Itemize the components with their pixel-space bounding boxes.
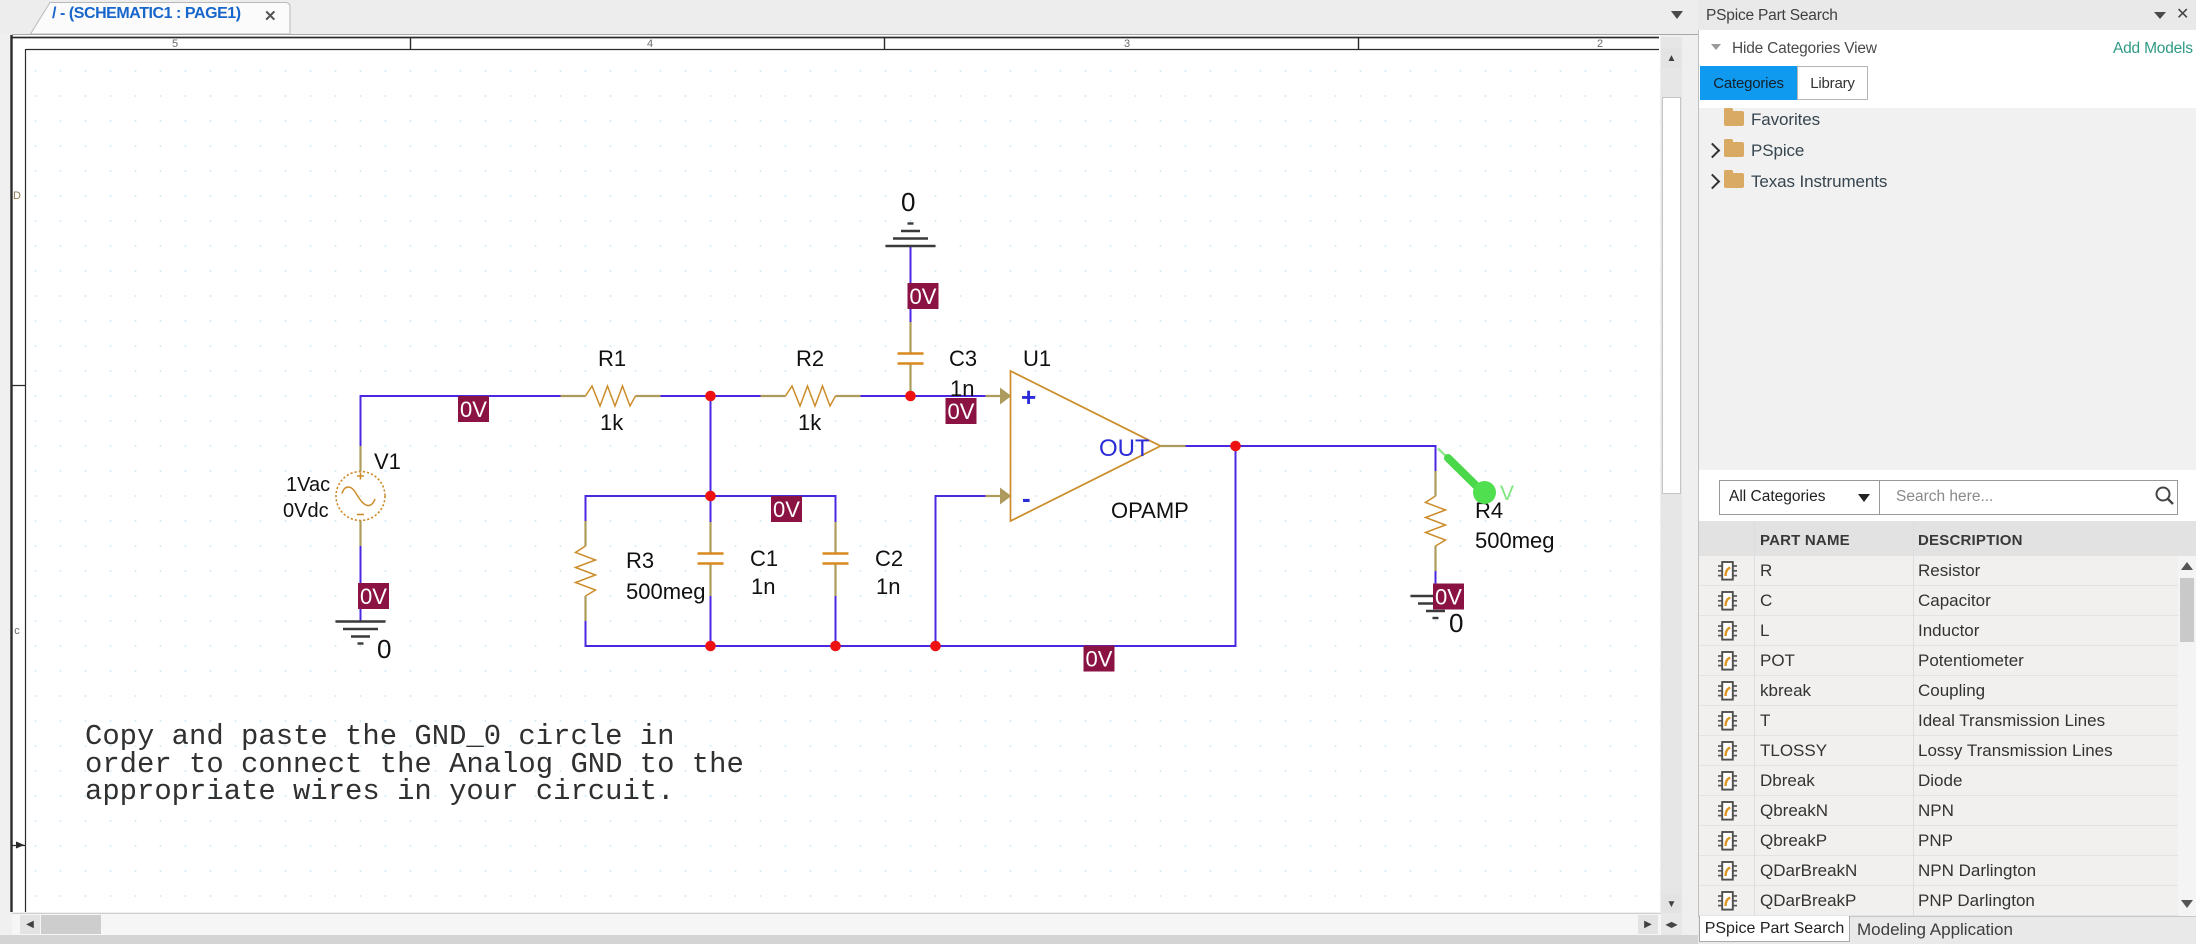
svg-text:OUT: OUT: [1099, 435, 1150, 462]
pin + (U1): [1021, 382, 1036, 412]
pin - (U1): [1022, 483, 1031, 513]
wire C1 bottom stub: [710, 595, 712, 646]
svg-text:500meg: 500meg: [626, 579, 706, 604]
value 1k (R2): [798, 410, 822, 435]
sheet frame (decorative): [11, 35, 1659, 912]
resistor R3: [576, 521, 596, 621]
resistor R4: [1426, 471, 1446, 571]
svg-text:C3: C3: [949, 346, 977, 371]
svg-text:0Vdc: 0Vdc: [283, 500, 329, 522]
voltage source V1: [336, 446, 385, 546]
svg-text:V: V: [1500, 482, 1514, 505]
label OPAMP: [1111, 498, 1189, 523]
label R1: [598, 346, 626, 371]
svg-text:C2: C2: [875, 546, 903, 571]
svg-text:500meg: 500meg: [1475, 528, 1555, 553]
value 500meg (R4): [1475, 528, 1555, 553]
voltage probe V: [1438, 449, 1514, 506]
junction node bottom inverting: [930, 641, 941, 652]
resistor R2: [761, 386, 861, 406]
net label 0V (V1 ground wire): [358, 583, 389, 609]
wire C2 bottom stub: [835, 595, 837, 646]
svg-text:1n: 1n: [751, 574, 775, 599]
svg-text:1k: 1k: [798, 410, 822, 435]
note text: [85, 723, 744, 806]
wire bottom rail: [586, 446, 1236, 646]
net label 0V (input wire): [458, 396, 489, 422]
svg-text:R2: R2: [796, 346, 824, 371]
label 0 (top ground): [901, 187, 915, 217]
junction node bottom C2: [830, 641, 841, 652]
wire R1 to R2: [660, 395, 762, 397]
svg-text:0V: 0V: [460, 397, 487, 422]
junction node C3/U1+: [905, 391, 916, 402]
wire feedback top rail R3 C1 C2: [586, 496, 836, 522]
wire ground 0 to C3: [910, 247, 912, 322]
page tab: [30, 2, 292, 34]
junction node feedback top: [705, 491, 716, 502]
junction node OUT: [1230, 441, 1241, 452]
label R2: [796, 346, 824, 371]
label C3: [949, 346, 977, 371]
svg-text:1n: 1n: [950, 376, 974, 401]
net label 0V (C3 top wire): [908, 283, 939, 309]
svg-text:4: 4: [647, 38, 653, 50]
label C2: [875, 546, 903, 571]
svg-text:R3: R3: [626, 548, 654, 573]
wire U1 output to R4: [1185, 446, 1436, 472]
junction node R1/R2: [705, 391, 716, 402]
net label 0V (feedback rail): [771, 496, 802, 522]
label R3: [626, 548, 654, 573]
svg-text:c: c: [14, 625, 20, 637]
label C1: [750, 546, 778, 571]
wire V1 bottom to ground: [360, 545, 362, 621]
wire from V1 to R1: [361, 396, 562, 447]
svg-text:0V: 0V: [360, 584, 387, 609]
svg-text:OPAMP: OPAMP: [1111, 498, 1189, 523]
label 0 (R4 ground): [1449, 608, 1463, 638]
value 1n (C3): [950, 376, 974, 401]
svg-text:0: 0: [1449, 608, 1463, 638]
net label 0V (R4 ground wire): [1433, 584, 1464, 610]
svg-text:2: 2: [1597, 38, 1603, 50]
scrollbars: [1661, 37, 1682, 915]
net label 0V (U1 + input): [946, 398, 977, 424]
wire R2 to U1 + input: [860, 395, 987, 397]
svg-text:5: 5: [172, 38, 178, 50]
capacitor C2: [823, 522, 849, 596]
pin OUT (U1): [1099, 435, 1150, 462]
ground (V1): [336, 622, 386, 644]
svg-text:V1: V1: [374, 449, 401, 474]
svg-text:0: 0: [377, 634, 391, 664]
label V1: [374, 449, 401, 474]
svg-text:+: +: [1021, 382, 1036, 412]
label 0 (V1 ground): [377, 634, 391, 664]
junction node bottom C1: [705, 641, 716, 652]
svg-text:0V: 0V: [1435, 585, 1462, 610]
svg-text:0V: 0V: [773, 497, 800, 522]
value 0Vdc: [283, 500, 329, 522]
svg-text:0V: 0V: [1086, 647, 1113, 672]
ground (R4): [1411, 596, 1461, 618]
svg-text:R1: R1: [598, 346, 626, 371]
value 500meg (R3): [626, 579, 706, 604]
wire R4 to ground: [1435, 570, 1437, 596]
svg-text:3: 3: [1124, 38, 1130, 50]
svg-text:C1: C1: [750, 546, 778, 571]
svg-text:1n: 1n: [876, 574, 900, 599]
svg-text:0V: 0V: [910, 284, 937, 309]
label U1: [1023, 346, 1051, 371]
resistor R1: [561, 386, 661, 406]
wire C1 top stub: [710, 496, 712, 522]
value 1k (R1): [600, 410, 624, 435]
value 1Vac: [286, 474, 330, 496]
svg-text:D: D: [13, 190, 21, 202]
capacitor C3: [898, 322, 924, 396]
svg-text:1Vac: 1Vac: [286, 474, 330, 496]
svg-text:0: 0: [901, 187, 915, 217]
value 1n (C2): [876, 574, 900, 599]
value 1n (C1): [751, 574, 775, 599]
svg-text:-: -: [1022, 483, 1031, 513]
wire node junction R1R2 down to feedback node: [710, 396, 712, 496]
right panel: [1698, 0, 2196, 944]
op-amp U1: [986, 371, 1186, 521]
svg-text:U1: U1: [1023, 346, 1051, 371]
wire inverting input branch: [936, 496, 987, 646]
svg-text:1k: 1k: [600, 410, 624, 435]
label R4: [1475, 498, 1503, 523]
ground (top, C3): [886, 224, 936, 247]
svg-text:0V: 0V: [948, 399, 975, 424]
net label 0V (bottom rail): [1084, 646, 1115, 672]
capacitor C1: [698, 522, 724, 596]
